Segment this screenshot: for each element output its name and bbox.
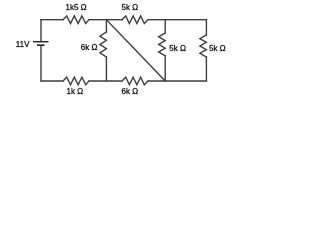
battery V1 short thick plate: [37, 44, 45, 46]
svg-text:11V: 11V: [16, 40, 30, 49]
wire 6k vertical to bottom node B: [105, 57, 107, 81]
wire bottom rail left segment: [41, 80, 63, 82]
wire 5k middle vertical to bottom node C: [164, 56, 166, 81]
svg-text:5k Ω: 5k Ω: [209, 44, 226, 53]
wire top between 1k5 and node A: [89, 19, 122, 21]
resistor R6 5k middle vertical zigzag: [159, 33, 166, 56]
svg-text:6k Ω: 6k Ω: [122, 87, 139, 96]
wire top rail left segment: [41, 19, 63, 21]
svg-text:1k5 Ω: 1k5 Ω: [66, 3, 87, 12]
resistor R1 1k5 top-left zigzag: [63, 16, 89, 24]
wire right rail upper: [205, 20, 207, 35]
wire node A stub down: [105, 20, 107, 32]
resistor R4 6k bottom zigzag: [122, 77, 148, 85]
resistor R7 5k right vertical zigzag: [200, 35, 207, 57]
resistor R3 1k bottom-left zigzag: [63, 77, 89, 85]
wire diagonal node A to node C: [106, 20, 165, 81]
svg-text:5k Ω: 5k Ω: [122, 3, 139, 12]
wire node mid-right stub down: [164, 20, 166, 33]
svg-text:6k Ω: 6k Ω: [81, 43, 98, 52]
battery V1 long plate: [33, 41, 49, 43]
resistor R5 6k vertical zigzag: [100, 32, 107, 57]
svg-text:5k Ω: 5k Ω: [169, 44, 186, 53]
wire top right of 5k: [148, 19, 206, 21]
wire bottom between 1k and node B: [89, 80, 122, 82]
wire left rail upper: [40, 20, 42, 42]
wire bottom right of 6k: [148, 80, 206, 82]
wire right rail lower: [205, 57, 207, 81]
svg-text:1k Ω: 1k Ω: [67, 87, 84, 96]
wire left rail lower: [40, 45, 42, 81]
resistor R2 5k top zigzag: [122, 16, 148, 24]
